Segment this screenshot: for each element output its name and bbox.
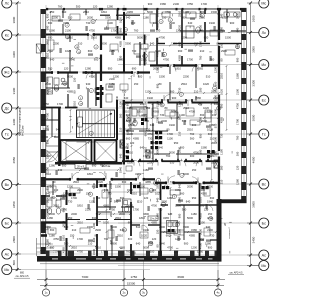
svg-text:150: 150 xyxy=(162,16,167,20)
svg-text:2100: 2100 xyxy=(53,250,59,254)
svg-text:1180: 1180 xyxy=(220,27,224,33)
interior wall V x117.5 upper xyxy=(117,9,119,20)
svg-text:510: 510 xyxy=(68,16,73,20)
svg-text:1200: 1200 xyxy=(175,204,181,208)
lower wing V x199.5 xyxy=(199,183,201,225)
svg-text:210: 210 xyxy=(212,113,217,117)
svg-text:640: 640 xyxy=(136,242,141,246)
svg-text:300: 300 xyxy=(190,154,195,158)
svg-text:2510: 2510 xyxy=(181,82,187,86)
inner dimension lines xyxy=(126,13,218,15)
svg-text:1580: 1580 xyxy=(160,2,166,6)
svg-text:4700: 4700 xyxy=(89,75,95,79)
svg-text:510: 510 xyxy=(136,225,141,229)
svg-text:1700: 1700 xyxy=(236,119,240,125)
svg-text:1020: 1020 xyxy=(141,234,147,238)
svg-text:1940: 1940 xyxy=(209,21,215,25)
svg-text:1020: 1020 xyxy=(207,128,213,132)
bottom-right corner walls xyxy=(217,199,222,262)
svg-text:640: 640 xyxy=(50,58,55,62)
svg-text:2610: 2610 xyxy=(115,216,121,220)
svg-text:900: 900 xyxy=(236,57,240,62)
svg-text:360: 360 xyxy=(50,228,55,232)
svg-text:2900: 2900 xyxy=(95,228,101,232)
door arcs xyxy=(88,35,94,41)
svg-text:690: 690 xyxy=(92,164,97,168)
svg-text:1020: 1020 xyxy=(203,106,209,110)
svg-text:Дс: Дс xyxy=(5,106,9,110)
svg-text:4700: 4700 xyxy=(193,151,199,155)
svg-text:1700: 1700 xyxy=(187,58,193,62)
svg-text:Бс: Бс xyxy=(262,221,266,225)
lower wing V x97 xyxy=(96,179,98,188)
svg-text:510: 510 xyxy=(96,212,101,216)
svg-text:660: 660 xyxy=(48,21,53,25)
svg-text:4365: 4365 xyxy=(163,216,169,220)
svg-text:80: 80 xyxy=(167,128,170,132)
svg-text:660: 660 xyxy=(180,192,185,196)
entrance canopy diagonals xyxy=(47,150,60,163)
svg-text:2200: 2200 xyxy=(161,119,167,123)
svg-text:1200: 1200 xyxy=(181,36,187,40)
svg-text:640: 640 xyxy=(150,123,155,127)
svg-text:760: 760 xyxy=(144,35,148,40)
svg-text:2200: 2200 xyxy=(71,212,77,216)
svg-text:см. АР2-4.5: см. АР2-4.5 xyxy=(16,275,29,278)
svg-text:900: 900 xyxy=(184,242,189,246)
svg-text:4385: 4385 xyxy=(220,117,224,123)
svg-text:940: 940 xyxy=(116,95,119,100)
svg-text:120: 120 xyxy=(199,101,203,106)
svg-text:640: 640 xyxy=(124,96,129,100)
svg-text:950: 950 xyxy=(62,164,67,168)
svg-text:5000: 5000 xyxy=(92,183,96,189)
elevator shaft B xyxy=(95,140,117,162)
svg-text:2200: 2200 xyxy=(147,161,153,165)
svg-text:150: 150 xyxy=(70,234,75,238)
svg-text:2100: 2100 xyxy=(127,132,133,136)
svg-text:210: 210 xyxy=(119,127,123,132)
bottom dimension chain segments xyxy=(37,279,225,281)
svg-text:1200: 1200 xyxy=(113,75,119,79)
svg-text:730: 730 xyxy=(86,21,91,25)
svg-text:4750: 4750 xyxy=(147,132,153,136)
svg-text:2000: 2000 xyxy=(109,211,113,217)
svg-text:660: 660 xyxy=(128,221,133,225)
svg-text:2510: 2510 xyxy=(131,192,137,196)
small wall ticks xyxy=(148,245,150,248)
svg-text:800: 800 xyxy=(156,83,160,88)
svg-text:730: 730 xyxy=(132,49,137,53)
svg-text:1020: 1020 xyxy=(119,17,123,23)
svg-text:640: 640 xyxy=(178,183,182,188)
svg-text:150: 150 xyxy=(220,43,224,48)
svg-text:2610: 2610 xyxy=(123,110,129,114)
svg-text:2200: 2200 xyxy=(12,118,16,125)
svg-text:640: 640 xyxy=(236,27,240,32)
svg-text:4365: 4365 xyxy=(153,110,159,114)
svg-text:1700: 1700 xyxy=(111,29,117,33)
mid upper partitions between stair and axis2 xyxy=(100,15,110,16)
vent shafts small hatched xyxy=(120,140,124,148)
svg-text:4385: 4385 xyxy=(151,221,157,225)
svg-text:900: 900 xyxy=(46,208,51,212)
svg-text:940: 940 xyxy=(126,16,131,20)
svg-text:940: 940 xyxy=(150,42,155,46)
svg-text:800: 800 xyxy=(200,204,205,208)
svg-text:5000: 5000 xyxy=(147,10,153,14)
svg-text:760: 760 xyxy=(158,208,163,212)
sub-corridor stubs xyxy=(52,181,55,195)
svg-text:Вс: Вс xyxy=(5,183,9,187)
svg-text:510: 510 xyxy=(206,75,211,79)
svg-text:1020: 1020 xyxy=(203,82,209,86)
svg-text:300: 300 xyxy=(208,132,213,136)
svg-text:360: 360 xyxy=(190,137,195,141)
upper right partitions xyxy=(156,9,158,30)
svg-text:640: 640 xyxy=(188,21,193,25)
svg-text:660: 660 xyxy=(88,49,93,53)
svg-text:1700: 1700 xyxy=(101,250,107,254)
svg-text:Гс: Гс xyxy=(262,132,266,136)
svg-text:Ас: Ас xyxy=(5,252,9,256)
svg-text:120: 120 xyxy=(152,237,157,241)
svg-text:1580: 1580 xyxy=(191,228,197,232)
lower wing V x131 xyxy=(130,182,132,194)
svg-text:690: 690 xyxy=(196,141,201,145)
svg-text:1100: 1100 xyxy=(167,137,173,141)
svg-text:2610: 2610 xyxy=(62,221,66,227)
svg-text:3000: 3000 xyxy=(252,114,256,121)
svg-text:2000: 2000 xyxy=(87,16,93,20)
svg-text:3600: 3600 xyxy=(252,201,256,208)
svg-text:4365: 4365 xyxy=(62,247,66,253)
svg-text:5000: 5000 xyxy=(169,151,175,155)
svg-text:80: 80 xyxy=(156,244,160,247)
svg-text:2200: 2200 xyxy=(183,75,189,79)
svg-text:1810: 1810 xyxy=(127,151,133,155)
svg-text:300: 300 xyxy=(199,87,203,92)
interior wall V x100.5 xyxy=(100,35,102,51)
svg-text:4365: 4365 xyxy=(199,213,203,219)
svg-text:1200: 1200 xyxy=(183,10,189,14)
svg-text:940: 940 xyxy=(56,128,61,132)
svg-text:1940: 1940 xyxy=(157,146,163,150)
svg-text:1810: 1810 xyxy=(46,53,50,59)
svg-text:950: 950 xyxy=(174,141,179,145)
svg-text:900: 900 xyxy=(178,213,182,218)
svg-text:2510: 2510 xyxy=(187,128,193,132)
svg-text:1810: 1810 xyxy=(77,204,83,208)
svg-text:1500: 1500 xyxy=(49,212,55,216)
svg-text:2510: 2510 xyxy=(178,11,182,17)
svg-text:300: 300 xyxy=(144,47,148,52)
svg-text:3300: 3300 xyxy=(125,42,131,46)
svg-text:1100: 1100 xyxy=(179,113,185,117)
exterior wall right xyxy=(241,9,243,204)
svg-text:2000: 2000 xyxy=(193,161,199,165)
note sm AP2-4.5 left xyxy=(14,277,30,279)
svg-text:1580: 1580 xyxy=(205,242,211,246)
svg-text:5000: 5000 xyxy=(127,204,133,208)
svg-text:4650: 4650 xyxy=(252,156,256,163)
svg-text:800: 800 xyxy=(46,139,50,144)
svg-text:1700: 1700 xyxy=(126,155,130,161)
svg-text:1700: 1700 xyxy=(71,196,77,200)
svg-text:1180: 1180 xyxy=(109,82,115,86)
svg-text:120: 120 xyxy=(144,59,148,64)
interior wall H y34.5 xyxy=(46,34,88,36)
stair core left wall V x59 xyxy=(58,107,60,166)
svg-text:900: 900 xyxy=(168,228,173,232)
svg-text:2600: 2600 xyxy=(252,15,256,22)
svg-text:940: 940 xyxy=(168,212,173,216)
svg-text:1580: 1580 xyxy=(195,96,201,100)
left axis bubbles xyxy=(2,0,12,8)
svg-text:660: 660 xyxy=(122,180,127,184)
svg-text:5000: 5000 xyxy=(187,216,193,220)
interior wall H y72.5 left wing xyxy=(41,71,53,73)
note sm AP2-4.5 right xyxy=(228,274,244,276)
svg-text:80: 80 xyxy=(73,90,77,93)
svg-text:1580: 1580 xyxy=(201,146,207,150)
partition stubs xyxy=(58,19,63,21)
svg-text:690: 690 xyxy=(50,246,55,250)
svg-text:2900: 2900 xyxy=(77,188,83,192)
svg-text:1940: 1940 xyxy=(119,167,123,173)
svg-text:210: 210 xyxy=(138,200,143,204)
svg-text:730: 730 xyxy=(68,200,73,204)
svg-text:1810: 1810 xyxy=(87,172,93,176)
svg-text:1100: 1100 xyxy=(193,180,199,184)
svg-text:1180: 1180 xyxy=(46,239,50,245)
svg-text:2510: 2510 xyxy=(220,73,224,79)
svg-text:1280: 1280 xyxy=(49,164,55,168)
svg-text:1700: 1700 xyxy=(133,208,139,212)
svg-text:1100: 1100 xyxy=(145,90,151,94)
svg-text:300: 300 xyxy=(150,250,155,254)
svg-text:3000: 3000 xyxy=(252,46,256,53)
svg-text:900: 900 xyxy=(172,96,177,100)
right axis bubbles xyxy=(259,0,269,8)
svg-text:4750: 4750 xyxy=(199,25,203,31)
svg-text:730: 730 xyxy=(148,137,153,141)
small tag circles xyxy=(168,18,172,22)
svg-text:2100: 2100 xyxy=(199,188,205,192)
svg-text:660: 660 xyxy=(119,27,123,32)
svg-text:1100: 1100 xyxy=(119,101,123,107)
svg-text:80: 80 xyxy=(95,234,98,238)
svg-text:4385: 4385 xyxy=(201,192,207,196)
svg-text:2610: 2610 xyxy=(46,39,50,45)
svg-text:1810: 1810 xyxy=(199,197,203,203)
small furniture rects xyxy=(52,16,60,21)
svg-text:1180: 1180 xyxy=(143,16,149,20)
plumbing stacks xyxy=(151,141,154,144)
svg-text:640: 640 xyxy=(119,153,123,158)
svg-text:900: 900 xyxy=(148,2,153,6)
svg-text:4750: 4750 xyxy=(187,2,193,6)
svg-text:2000: 2000 xyxy=(159,225,165,229)
wc cluster lower center xyxy=(123,199,132,212)
svg-text:1940: 1940 xyxy=(147,96,153,100)
svg-text:5000: 5000 xyxy=(199,229,203,235)
svg-text:120: 120 xyxy=(64,67,69,71)
svg-text:360: 360 xyxy=(210,180,215,184)
svg-text:1100: 1100 xyxy=(178,101,182,107)
svg-text:2200: 2200 xyxy=(109,183,113,189)
grid axis lines xyxy=(12,5,259,287)
lower partition H y205 right xyxy=(161,204,169,205)
svg-text:510: 510 xyxy=(164,185,169,189)
svg-text:Ис: Ис xyxy=(262,63,267,67)
svg-text:1580: 1580 xyxy=(178,229,182,235)
svg-text:690: 690 xyxy=(199,149,203,154)
svg-text:1500: 1500 xyxy=(46,153,50,159)
svg-text:1700: 1700 xyxy=(77,237,83,241)
svg-text:120: 120 xyxy=(130,141,135,145)
top-left small balcony box xyxy=(36,44,41,53)
svg-text:4385: 4385 xyxy=(189,234,195,238)
svg-text:360: 360 xyxy=(200,113,205,117)
left entrance step xyxy=(41,234,48,237)
svg-text:3450: 3450 xyxy=(252,236,256,243)
svg-text:1500: 1500 xyxy=(225,36,231,40)
svg-text:360: 360 xyxy=(170,90,175,94)
stair core right wall V x119 xyxy=(116,100,118,140)
svg-text:1280: 1280 xyxy=(167,196,173,200)
svg-text:940: 940 xyxy=(220,13,224,18)
exterior wall bottom dark band xyxy=(37,256,222,261)
svg-text:4700: 4700 xyxy=(199,243,203,249)
svg-text:950: 950 xyxy=(50,10,55,14)
svg-text:4750: 4750 xyxy=(89,29,95,33)
svg-text:4700: 4700 xyxy=(189,110,195,114)
svg-text:150: 150 xyxy=(192,168,197,172)
svg-text:4365: 4365 xyxy=(156,23,160,29)
svg-text:950: 950 xyxy=(68,216,73,220)
svg-text:800: 800 xyxy=(138,75,143,79)
svg-text:2000: 2000 xyxy=(101,42,107,46)
svg-text:4700: 4700 xyxy=(167,246,173,250)
svg-text:800: 800 xyxy=(106,161,111,165)
svg-text:7000: 7000 xyxy=(82,275,89,279)
svg-text:80: 80 xyxy=(183,16,186,20)
interior wall H y107.5 left stub xyxy=(41,107,61,109)
svg-text:Мс: Мс xyxy=(261,264,266,268)
svg-text:300: 300 xyxy=(128,237,133,241)
interior wall H y65.5 right wing xyxy=(150,64,169,66)
svg-text:4750: 4750 xyxy=(109,208,115,212)
svg-text:1280: 1280 xyxy=(107,4,113,8)
svg-text:1700: 1700 xyxy=(167,132,173,136)
svg-text:1100: 1100 xyxy=(199,221,205,225)
lower partition H y196 xyxy=(41,195,50,196)
svg-text:640: 640 xyxy=(186,200,191,204)
svg-text:2610: 2610 xyxy=(211,141,217,145)
svg-text:1940: 1940 xyxy=(127,188,133,192)
svg-text:1500: 1500 xyxy=(159,75,165,79)
svg-text:1810: 1810 xyxy=(91,36,97,40)
svg-text:1020: 1020 xyxy=(220,89,224,95)
svg-text:210: 210 xyxy=(178,131,182,136)
svg-text:120: 120 xyxy=(174,250,179,254)
svg-text:690: 690 xyxy=(48,36,53,40)
svg-text:2000: 2000 xyxy=(156,149,160,155)
entrance door arcs left of shafts xyxy=(46,145,58,147)
svg-text:690: 690 xyxy=(62,207,66,212)
svg-text:940: 940 xyxy=(58,168,63,172)
svg-text:2900: 2900 xyxy=(236,13,240,19)
corridor north wall right part xyxy=(122,160,134,162)
svg-text:300: 300 xyxy=(182,208,187,212)
svg-text:4365: 4365 xyxy=(119,246,125,250)
svg-text:см. АР2-4.5: см. АР2-4.5 xyxy=(230,272,243,275)
svg-text:Бс: Бс xyxy=(5,221,9,225)
svg-text:1700: 1700 xyxy=(201,2,207,6)
svg-text:5000: 5000 xyxy=(137,36,143,40)
lower partition H y240 right xyxy=(200,239,205,240)
svg-text:760: 760 xyxy=(166,154,171,158)
svg-text:760: 760 xyxy=(236,135,240,140)
svg-text:300: 300 xyxy=(236,151,240,156)
svg-text:2100: 2100 xyxy=(236,89,240,95)
svg-text:360: 360 xyxy=(178,49,183,53)
svg-text:4365: 4365 xyxy=(46,77,50,83)
svg-text:660: 660 xyxy=(126,137,131,141)
stair label box xyxy=(78,117,83,127)
svg-text:360: 360 xyxy=(119,113,123,118)
svg-text:1500: 1500 xyxy=(211,10,217,14)
svg-text:1180: 1180 xyxy=(171,42,177,46)
bath partition V x68 upper xyxy=(67,73,68,89)
mid-right room furniture xyxy=(170,112,178,118)
svg-text:940: 940 xyxy=(109,239,113,244)
svg-text:3000: 3000 xyxy=(12,16,16,23)
svg-text:4750: 4750 xyxy=(43,102,49,106)
svg-text:2510: 2510 xyxy=(117,234,123,238)
svg-text:Мс: Мс xyxy=(261,1,266,5)
svg-text:1200: 1200 xyxy=(207,110,213,114)
svg-text:б=120мм: б=120мм xyxy=(21,125,24,136)
svg-text:1280: 1280 xyxy=(236,179,240,185)
bathroom fixtures top-middle xyxy=(134,44,140,54)
svg-text:Лс: Лс xyxy=(5,1,9,5)
svg-text:Вс: Вс xyxy=(262,182,266,186)
lower wing V x160.5 xyxy=(160,183,162,200)
label box lower xyxy=(148,216,158,220)
svg-text:2100: 2100 xyxy=(207,228,213,232)
svg-text:940: 940 xyxy=(86,82,91,86)
svg-text:1580: 1580 xyxy=(236,73,240,79)
svg-text:800: 800 xyxy=(20,271,25,274)
svg-text:1810: 1810 xyxy=(62,235,66,241)
svg-text:3300: 3300 xyxy=(211,161,217,165)
svg-text:660: 660 xyxy=(166,234,171,238)
svg-text:150: 150 xyxy=(194,42,199,46)
svg-text:730: 730 xyxy=(178,87,182,92)
svg-text:800: 800 xyxy=(214,81,218,86)
svg-text:Жс: Жс xyxy=(4,70,9,74)
svg-text:4700: 4700 xyxy=(151,204,157,208)
interior wall H y100.5 right wing xyxy=(124,102,143,104)
svg-text:80: 80 xyxy=(217,42,220,46)
svg-text:1200: 1200 xyxy=(156,67,160,73)
lower partition H y225 mid xyxy=(131,224,140,225)
svg-text:2610: 2610 xyxy=(53,204,59,208)
svg-text:950: 950 xyxy=(199,133,203,138)
svg-text:800: 800 xyxy=(12,260,16,265)
